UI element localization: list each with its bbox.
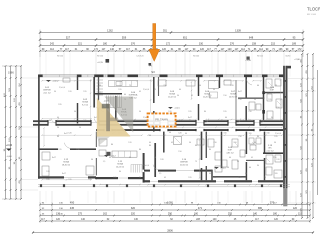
svg-text:60: 60: [225, 117, 227, 119]
svg-text:380: 380: [258, 207, 263, 210]
svg-text:SOBA: SOBA: [230, 93, 236, 96]
svg-text:90: 90: [54, 91, 56, 93]
svg-text:90/240: 90/240: [193, 55, 200, 57]
svg-text:-0,04: -0,04: [7, 156, 13, 158]
svg-text:60: 60: [254, 142, 256, 144]
svg-text:80: 80: [129, 157, 131, 159]
svg-text:60: 60: [179, 89, 181, 91]
svg-text:75: 75: [275, 85, 277, 87]
svg-text:60: 60: [267, 93, 269, 95]
svg-text:150: 150: [76, 149, 79, 151]
svg-text:60: 60: [124, 94, 126, 96]
svg-text:TLOCRT: TLOCRT: [307, 6, 320, 11]
svg-text:490: 490: [70, 201, 75, 205]
svg-text:60: 60: [257, 85, 259, 87]
svg-text:80: 80: [139, 149, 141, 151]
svg-text:45: 45: [171, 142, 173, 144]
svg-text:210: 210: [233, 142, 236, 144]
svg-text:90: 90: [79, 127, 81, 129]
svg-text:1,5: 1,5: [103, 161, 106, 163]
svg-text:+0,12: +0,12: [110, 156, 116, 158]
svg-text:195: 195: [118, 89, 121, 91]
svg-text:45: 45: [191, 95, 193, 97]
svg-text:8x17: 8x17: [238, 91, 242, 93]
svg-text:60: 60: [185, 133, 187, 135]
svg-text:8x17: 8x17: [52, 157, 56, 159]
svg-text:180: 180: [194, 213, 199, 216]
svg-text:195: 195: [83, 120, 86, 122]
svg-text:2,5x1,4: 2,5x1,4: [59, 87, 65, 89]
svg-text:1262: 1262: [107, 29, 113, 33]
svg-text:9,2 m2: 9,2 m2: [82, 104, 89, 106]
svg-text:KUHINJA: KUHINJA: [129, 94, 138, 97]
svg-text:120: 120: [160, 159, 163, 161]
svg-text:189: 189: [292, 43, 297, 46]
svg-text:90: 90: [139, 111, 141, 113]
svg-text:551: 551: [163, 30, 168, 33]
svg-text:210: 210: [238, 136, 241, 138]
svg-text:120: 120: [238, 177, 241, 179]
svg-text:90: 90: [237, 161, 239, 163]
svg-text:195: 195: [208, 95, 211, 97]
svg-text:90: 90: [227, 167, 229, 169]
svg-text:60: 60: [249, 167, 251, 169]
svg-text:1,5: 1,5: [179, 120, 182, 122]
svg-text:+0,10: +0,10: [220, 168, 226, 170]
svg-text:172: 172: [166, 43, 171, 46]
svg-text:75: 75: [264, 177, 266, 179]
svg-text:75: 75: [139, 177, 141, 179]
svg-text:SOBA: SOBA: [169, 93, 175, 96]
svg-text:445: 445: [70, 207, 75, 210]
svg-text:648: 648: [249, 36, 254, 40]
svg-text:+0,15: +0,15: [174, 108, 180, 110]
svg-text:115: 115: [298, 213, 303, 216]
svg-text:90: 90: [257, 165, 259, 167]
svg-text:2806: 2806: [167, 230, 173, 233]
svg-text:1,5: 1,5: [159, 173, 162, 175]
svg-text:275: 275: [78, 213, 83, 216]
svg-text:80: 80: [189, 120, 191, 122]
svg-text:90: 90: [134, 120, 136, 122]
svg-text:376: 376: [131, 43, 136, 46]
svg-text:90: 90: [169, 132, 171, 134]
svg-text:320: 320: [131, 207, 136, 210]
svg-text:195: 195: [46, 179, 49, 181]
svg-text:60: 60: [249, 120, 251, 122]
svg-text:11,42 m2: 11,42 m2: [168, 96, 177, 98]
svg-text:120: 120: [274, 173, 277, 175]
svg-text:2,5x1,4: 2,5x1,4: [143, 165, 149, 167]
svg-text:90/120: 90/120: [57, 55, 64, 57]
svg-text:210: 210: [213, 142, 216, 144]
svg-text:+0,15: +0,15: [97, 62, 103, 64]
svg-text:321: 321: [78, 43, 83, 46]
svg-text:1986: 1986: [8, 71, 14, 75]
svg-text:8x17: 8x17: [62, 173, 66, 175]
svg-text:120: 120: [230, 85, 233, 87]
svg-text:SOBA: SOBA: [117, 163, 123, 166]
svg-text:210: 210: [248, 111, 251, 113]
svg-text:1339: 1339: [235, 29, 241, 33]
svg-text:KUP.: KUP.: [228, 150, 233, 152]
svg-text:90: 90: [91, 159, 93, 161]
svg-text:24,1 m2: 24,1 m2: [43, 92, 51, 94]
svg-text:18,40 m2: 18,40 m2: [62, 164, 71, 166]
svg-text:559: 559: [122, 36, 127, 40]
svg-text:60: 60: [214, 177, 216, 179]
svg-text:195: 195: [58, 149, 61, 151]
svg-text:75: 75: [129, 85, 131, 87]
svg-text:195: 195: [223, 111, 226, 113]
svg-text:1,5: 1,5: [99, 92, 102, 94]
svg-text:MJ 1:100: MJ 1:100: [307, 14, 317, 16]
svg-text:210: 210: [238, 99, 241, 101]
svg-text:471: 471: [198, 207, 203, 210]
svg-text:45: 45: [251, 157, 253, 159]
svg-text:195: 195: [113, 177, 116, 179]
svg-text:180: 180: [273, 213, 278, 216]
svg-text:45: 45: [139, 91, 141, 93]
svg-text:90: 90: [99, 85, 101, 87]
svg-text:DNEVNI: DNEVNI: [180, 162, 188, 164]
svg-text:162: 162: [103, 213, 108, 216]
svg-text:DNEVNI: DNEVNI: [43, 90, 51, 92]
svg-text:60: 60: [245, 173, 247, 175]
svg-text:90: 90: [189, 142, 191, 144]
svg-text:80: 80: [195, 145, 197, 147]
svg-text:75: 75: [195, 161, 197, 163]
svg-text:320: 320: [131, 213, 136, 216]
svg-text:60: 60: [57, 117, 59, 119]
svg-text:255: 255: [228, 213, 233, 216]
svg-text:21,60 m2: 21,60 m2: [180, 164, 189, 166]
svg-text:120: 120: [128, 142, 131, 144]
svg-text:2,20 m2: 2,20 m2: [266, 150, 274, 152]
svg-text:80: 80: [209, 149, 211, 151]
svg-text:2,5x1,4: 2,5x1,4: [143, 89, 149, 91]
svg-text:5,10 m2: 5,10 m2: [268, 92, 276, 94]
svg-text:60: 60: [149, 142, 151, 144]
svg-text:80: 80: [111, 144, 113, 146]
svg-text:60: 60: [199, 85, 201, 87]
svg-text:90: 90: [74, 111, 76, 113]
svg-text:290: 290: [168, 213, 173, 216]
svg-text:60: 60: [57, 136, 59, 138]
svg-text:120: 120: [293, 207, 298, 210]
svg-text:215: 215: [271, 43, 276, 46]
svg-text:90: 90: [119, 171, 121, 173]
svg-text:60: 60: [209, 173, 211, 175]
svg-text:8x17: 8x17: [64, 133, 68, 135]
svg-text:90: 90: [271, 117, 273, 119]
svg-text:+0,15: +0,15: [52, 81, 58, 83]
svg-text:SOBA: SOBA: [63, 161, 69, 164]
svg-text:195: 195: [68, 179, 71, 181]
svg-text:195: 195: [268, 99, 271, 101]
svg-text:195: 195: [88, 179, 91, 181]
svg-text:90/120: 90/120: [257, 55, 264, 57]
svg-text:90: 90: [154, 157, 156, 159]
svg-text:140: 140: [253, 213, 258, 216]
svg-text:180: 180: [103, 43, 108, 46]
svg-text:242: 242: [50, 43, 55, 46]
svg-text:195: 195: [188, 177, 191, 179]
svg-text:120: 120: [46, 171, 49, 173]
svg-text:+2,80: +2,80: [294, 59, 300, 61]
svg-text:KUP.: KUP.: [270, 90, 275, 92]
svg-text:80: 80: [221, 120, 223, 122]
svg-text:90: 90: [254, 99, 256, 101]
svg-text:60/60: 60/60: [285, 55, 291, 57]
svg-text:WC: WC: [268, 148, 272, 150]
svg-text:195: 195: [83, 91, 86, 93]
svg-text:195: 195: [58, 104, 61, 106]
svg-text:80: 80: [257, 136, 259, 138]
svg-text:527: 527: [66, 36, 71, 40]
svg-text:150: 150: [273, 157, 276, 159]
svg-text:80: 80: [149, 145, 151, 147]
svg-text:+0,30: +0,30: [103, 101, 109, 103]
svg-text:90: 90: [177, 95, 179, 97]
svg-text:60: 60: [49, 120, 51, 122]
svg-text:90: 90: [213, 89, 215, 91]
svg-text:10,95 m2: 10,95 m2: [229, 96, 238, 98]
svg-text:75: 75: [154, 89, 156, 91]
svg-text:90/120: 90/120: [97, 55, 104, 57]
svg-text:210: 210: [163, 85, 166, 87]
svg-text:195: 195: [274, 136, 277, 138]
svg-text:330: 330: [199, 43, 204, 46]
svg-text:90: 90: [57, 127, 59, 129]
svg-text:PR. TAVAN: PR. TAVAN: [155, 119, 168, 122]
svg-text:SOBA: SOBA: [82, 101, 88, 104]
svg-text:60: 60: [229, 157, 231, 159]
svg-text:10,24 m2: 10,24 m2: [116, 166, 125, 168]
svg-text:2,5x1,4: 2,5x1,4: [275, 133, 281, 135]
svg-text:45: 45: [164, 177, 166, 179]
svg-text:150: 150: [178, 151, 181, 153]
svg-text:570: 570: [270, 201, 275, 205]
svg-text:4,85 m2: 4,85 m2: [226, 152, 234, 154]
svg-text:120: 120: [68, 91, 71, 93]
svg-text:60: 60: [149, 135, 151, 137]
svg-text:+3,95: +3,95: [245, 60, 251, 62]
svg-text:+0,00: +0,00: [6, 144, 13, 147]
svg-text:195: 195: [188, 111, 191, 113]
svg-text:651: 651: [183, 36, 188, 40]
svg-text:8x17: 8x17: [188, 117, 192, 119]
svg-text:120/120: 120/120: [136, 55, 144, 57]
svg-text:276: 276: [230, 43, 235, 46]
svg-text:150: 150: [276, 107, 279, 109]
svg-text:1060: 1060: [167, 201, 173, 205]
svg-text:90: 90: [274, 142, 276, 144]
svg-text:158: 158: [252, 43, 257, 46]
svg-text:120: 120: [248, 133, 251, 135]
svg-text:150: 150: [223, 95, 226, 97]
svg-text:S3: S3: [151, 70, 155, 74]
svg-text:80: 80: [204, 111, 206, 113]
svg-text:120: 120: [276, 159, 279, 161]
